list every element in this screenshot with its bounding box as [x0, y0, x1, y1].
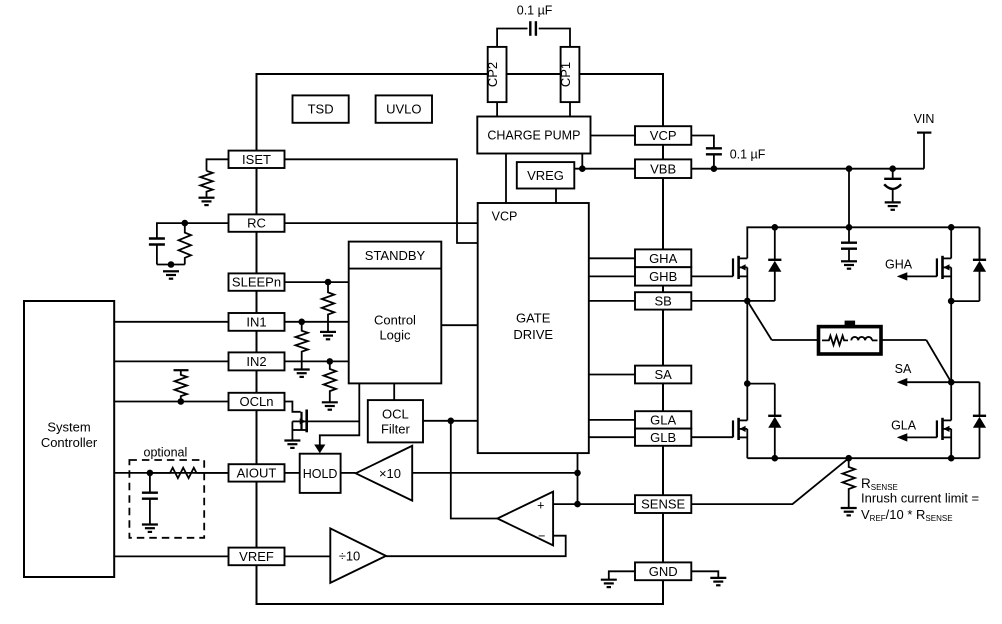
pin SA	[635, 366, 691, 384]
pin GND	[635, 562, 691, 580]
transistor Q-OCL	[300, 412, 302, 430]
svg-text:VCP: VCP	[492, 210, 518, 224]
wire comparator plus to SENSE	[553, 503, 635, 505]
transistor Q-LA low-side A	[936, 420, 938, 437]
svg-text:VBB: VBB	[650, 161, 676, 176]
pin AIOUT	[229, 464, 285, 481]
wire CP2 to flying cap	[497, 29, 527, 47]
svg-text:CHARGE PUMP: CHARGE PUMP	[487, 129, 580, 143]
wire GND to IC bottom	[662, 580, 664, 604]
diode D-LB	[774, 384, 776, 416]
svg-text:÷10: ÷10	[339, 549, 361, 564]
svg-text:VREG: VREG	[527, 168, 564, 183]
svg-text:GATE: GATE	[516, 311, 551, 326]
svg-text:SLEEPn: SLEEPn	[232, 275, 281, 290]
diode D-HB	[774, 227, 776, 259]
capacitor C-BRIDGE	[848, 227, 850, 242]
pin OCLn	[229, 393, 285, 410]
wire VBB rail	[691, 168, 924, 170]
wire OCL Filter to GATE DRIVE	[423, 420, 478, 422]
node SA	[948, 379, 955, 386]
node VREG output	[579, 165, 586, 172]
pin VCP	[635, 126, 691, 145]
capacitor C-RC	[149, 237, 165, 239]
svg-text:GLA: GLA	[891, 418, 917, 432]
wire C-AIOUT bottom	[149, 499, 151, 525]
wire C-BRIDGE bottom	[848, 249, 850, 262]
wire VCP bypass	[691, 136, 714, 149]
wire CP2 to CHARGE PUMP	[496, 102, 498, 116]
wire RC left	[157, 223, 229, 238]
arrow SA	[897, 378, 908, 386]
svg-text:−: −	[538, 529, 545, 543]
op-amp comparator U-CMP	[497, 492, 553, 546]
ground R-SENSE	[841, 507, 857, 509]
capacitor C-VCP 0.1uF	[706, 147, 722, 149]
pin GLA	[635, 411, 691, 428]
transistor Q-LB low-side B	[732, 420, 734, 437]
op-amp x10	[356, 446, 413, 501]
node sense tap	[845, 455, 852, 462]
wire D-HA to source	[951, 300, 979, 302]
node OCL Filter output	[448, 418, 455, 425]
svg-text:GLB: GLB	[650, 430, 676, 445]
wire x10 input	[412, 472, 577, 474]
pin CP1	[561, 47, 580, 102]
node x10 input junction	[574, 470, 581, 477]
arrow GHA	[897, 272, 908, 280]
wire System Controller to IN2	[114, 360, 228, 362]
wire ISET left	[207, 159, 229, 171]
pin RC	[229, 214, 285, 231]
svg-text:GHA: GHA	[885, 257, 913, 271]
node SLEEPn tap	[325, 279, 332, 286]
wire CP1 to CHARGE PUMP	[569, 102, 571, 116]
wire IN1 to Control Logic	[285, 321, 349, 323]
wire Q-HA drain	[950, 227, 952, 258]
svg-text:GHB: GHB	[649, 269, 677, 284]
wire comparator out to OCL Filter	[451, 421, 498, 519]
ground AIOUT	[142, 523, 158, 525]
svg-text:CP1: CP1	[558, 62, 573, 87]
wire GATE DRIVE to SA	[589, 374, 635, 376]
resistor R-SLEEPn	[322, 282, 334, 332]
ground RC	[163, 270, 179, 272]
pin GHA	[635, 249, 691, 267]
wire Control Logic to GATE DRIVE	[441, 324, 477, 326]
node rail MOSFET A	[948, 224, 955, 231]
svg-text:Control: Control	[374, 313, 416, 328]
wire Q-LB source	[746, 429, 748, 458]
node SB	[744, 298, 751, 305]
svg-text:IN1: IN1	[246, 315, 266, 330]
svg-text:Filter: Filter	[381, 421, 411, 436]
wire OCLn to Q-OCL gate	[285, 402, 301, 412]
wire bridge top rail	[746, 226, 979, 228]
motor M1 winding resistance	[822, 336, 848, 345]
svg-text:+: +	[537, 498, 544, 512]
terminal VIN	[917, 132, 931, 134]
svg-text:SENSE: SENSE	[641, 497, 685, 512]
node VBB bridge junction	[846, 165, 853, 172]
node rail diode B	[772, 224, 779, 231]
wire RC to GATE DRIVE	[285, 222, 478, 224]
svg-text:Logic: Logic	[379, 328, 411, 343]
block TSD	[293, 95, 349, 122]
wire CHARGE PUMP to GATE DRIVE	[505, 154, 507, 204]
ground IN2	[322, 401, 338, 403]
wire Q-HB drain	[746, 227, 748, 258]
ground SLEEPn	[320, 331, 336, 333]
node Q-LB drain top	[744, 380, 751, 387]
wire VREG to GATE DRIVE	[555, 189, 557, 204]
transistor Q-HA high-side A	[936, 258, 938, 276]
resistor R-SENSE	[843, 458, 855, 508]
wire SENSE pin	[691, 458, 848, 504]
resistor R-OCLn	[175, 370, 187, 401]
pin GLB	[635, 429, 691, 446]
wire SB diagonal to motor	[747, 301, 771, 340]
wire Q-HA source	[950, 267, 952, 301]
optional dashed box	[129, 460, 204, 538]
resistor R-RC	[179, 223, 191, 264]
node OCLn tap	[178, 398, 185, 405]
wire Q-OCL drain	[307, 420, 359, 422]
svg-text:Controller: Controller	[41, 435, 98, 450]
wire to D-LB	[747, 383, 775, 385]
ground C-BULK	[885, 201, 901, 203]
block GATE DRIVE U-GD	[478, 203, 589, 453]
node Q-HA source	[948, 298, 955, 305]
wire VIN drop	[923, 133, 925, 169]
wire Q-HB source	[746, 267, 748, 301]
pin SB	[635, 292, 691, 309]
wire motor right	[881, 339, 926, 341]
arrow into HOLD	[314, 445, 325, 454]
pin SENSE	[635, 495, 691, 513]
wire SB to Q-LB drain	[746, 301, 748, 384]
svg-text:ISET: ISET	[242, 152, 271, 167]
wire ISET to GATE DRIVE	[285, 159, 478, 243]
node bulk cap junction	[889, 165, 896, 172]
wire GND right ground	[691, 571, 718, 578]
wire Q-OCL source to ground	[291, 421, 293, 440]
capacitor C-CP flying	[529, 21, 531, 36]
ground Q-OCL	[284, 439, 300, 441]
node AIOUT tap	[147, 470, 154, 477]
wire System Controller to OCLn	[114, 401, 228, 403]
svg-text:0.1 µF: 0.1 µF	[730, 148, 766, 162]
pin IN2	[229, 352, 285, 370]
wire Q-LA source	[950, 429, 952, 458]
svg-text:GLA: GLA	[650, 413, 676, 428]
svg-text:×10: ×10	[379, 466, 401, 481]
wire Control Logic to OCL Filter	[393, 383, 395, 400]
wire AIOUT to HOLD	[285, 472, 300, 474]
resistor R-IN1	[296, 322, 308, 370]
svg-text:VREF: VREF	[239, 549, 274, 564]
diode D-LA	[979, 382, 981, 416]
svg-text:optional: optional	[144, 446, 188, 460]
svg-text:STANDBY: STANDBY	[365, 248, 426, 263]
wire to D-LA	[951, 381, 979, 383]
arrow GLA	[897, 433, 908, 441]
svg-text:SB: SB	[654, 294, 671, 309]
svg-text:Inrush current limit =: Inrush current limit =	[861, 491, 979, 506]
wire motor diagonal to SA	[926, 340, 951, 382]
pin CP2	[488, 47, 507, 102]
System Controller block U-SC	[24, 301, 114, 577]
pin GHB	[635, 267, 691, 285]
svg-text:SA: SA	[895, 362, 912, 376]
wire VREG to VBB	[574, 168, 635, 170]
wire bridge bottom rail	[747, 457, 979, 459]
wire CHARGE PUMP to VCP	[591, 135, 636, 137]
wire SA column	[950, 301, 952, 382]
pin ISET	[229, 151, 285, 168]
wire flying cap to CP1	[539, 29, 570, 47]
op-amp div10	[330, 528, 386, 583]
IC package outline	[257, 74, 664, 604]
wire GATE DRIVE to GLB	[589, 436, 635, 438]
supply bar OCLn pull-up	[174, 369, 189, 371]
wire GLB to gate	[691, 436, 733, 438]
block CHARGE PUMP	[477, 117, 590, 154]
svg-text:OCLn: OCLn	[240, 394, 274, 409]
node comparator plus junction	[574, 501, 581, 508]
motor M1 body	[845, 321, 856, 329]
block HOLD	[300, 454, 341, 493]
wire Q-LA drain	[950, 382, 952, 420]
svg-text:RC: RC	[247, 216, 266, 231]
wire GATE DRIVE to GHB	[589, 275, 635, 277]
node RC bottom	[168, 261, 175, 268]
wire RC bottom rail	[157, 264, 185, 266]
svg-text:IN2: IN2	[246, 354, 266, 369]
ground GND-left	[601, 579, 617, 581]
node IN2 tap	[327, 358, 334, 365]
svg-text:CP2: CP2	[485, 62, 500, 87]
svg-text:OCL: OCL	[382, 406, 409, 421]
node rail center	[846, 224, 853, 231]
pin VBB	[635, 159, 691, 178]
ground C-BRIDGE	[841, 260, 857, 262]
wire C-RC bottom	[156, 245, 158, 265]
pin VREF	[229, 548, 285, 566]
pin IN1	[229, 313, 285, 331]
diode D-HA	[979, 227, 981, 259]
ground ISET	[199, 197, 215, 199]
ground GND-right	[710, 577, 726, 579]
svg-text:HOLD: HOLD	[303, 467, 338, 481]
block OCL Filter	[368, 400, 423, 442]
svg-text:0.1 µF: 0.1 µF	[517, 4, 553, 18]
svg-text:DRIVE: DRIVE	[513, 327, 553, 342]
wire motor left	[772, 339, 819, 341]
wire GATE DRIVE to GLA	[589, 419, 635, 421]
wire GND left ground	[609, 571, 635, 579]
svg-text:VIN: VIN	[914, 112, 935, 126]
resistor R-AIOUT	[150, 468, 229, 478]
capacitor C-BULK polarized	[892, 169, 894, 179]
wire VBB to bridge	[848, 169, 850, 228]
wire Q-LB drain	[746, 384, 748, 421]
transistor Q-HB high-side B	[732, 258, 734, 276]
svg-text:VCP: VCP	[650, 128, 677, 143]
pin SLEEPn	[229, 273, 285, 290]
node IN1 tap	[298, 319, 305, 326]
svg-text:GND: GND	[649, 564, 678, 579]
wire comparator minus	[386, 536, 566, 557]
svg-text:UVLO: UVLO	[386, 102, 421, 117]
wire HOLD to x10	[341, 472, 356, 474]
node bottom MOSFET A	[948, 455, 955, 462]
wire System Controller to IN1	[114, 321, 228, 323]
wire C-VCP to VBB	[713, 154, 715, 168]
wire VREF to div10	[285, 555, 331, 557]
wire IN2 to Control Logic	[285, 360, 349, 362]
block Control Logic with STANDBY header	[349, 242, 442, 384]
block VREG	[517, 162, 575, 188]
wire GHB to gate	[691, 275, 733, 277]
wire System Controller to VREF	[114, 555, 228, 557]
wire Control Logic to HOLD	[320, 383, 360, 445]
capacitor C-AIOUT	[149, 473, 151, 493]
wire SB	[691, 300, 775, 302]
node RC tap	[182, 220, 189, 227]
ground IN1	[294, 368, 310, 370]
block UVLO	[376, 95, 432, 122]
svg-text:TSD: TSD	[308, 102, 334, 117]
resistor R-ISET	[200, 171, 212, 198]
svg-text:System: System	[47, 420, 90, 435]
wire System Controller to AIOUT	[114, 472, 228, 474]
wire GATE DRIVE to SB	[589, 300, 635, 302]
motor M1 winding inductance	[851, 337, 872, 340]
node bottom diode B	[772, 455, 779, 462]
svg-text:AIOUT: AIOUT	[237, 466, 277, 481]
svg-text:GHA: GHA	[649, 251, 678, 266]
wire SLEEPn to Control Logic	[285, 281, 349, 283]
wire CHARGE PUMP to VBB net	[581, 154, 583, 169]
node VCP cap junction	[711, 165, 718, 172]
svg-text:SA: SA	[654, 367, 672, 382]
wire GATE DRIVE sense tap	[577, 453, 579, 504]
wire GATE DRIVE to GHA	[589, 257, 635, 259]
resistor R-IN2	[324, 361, 336, 402]
